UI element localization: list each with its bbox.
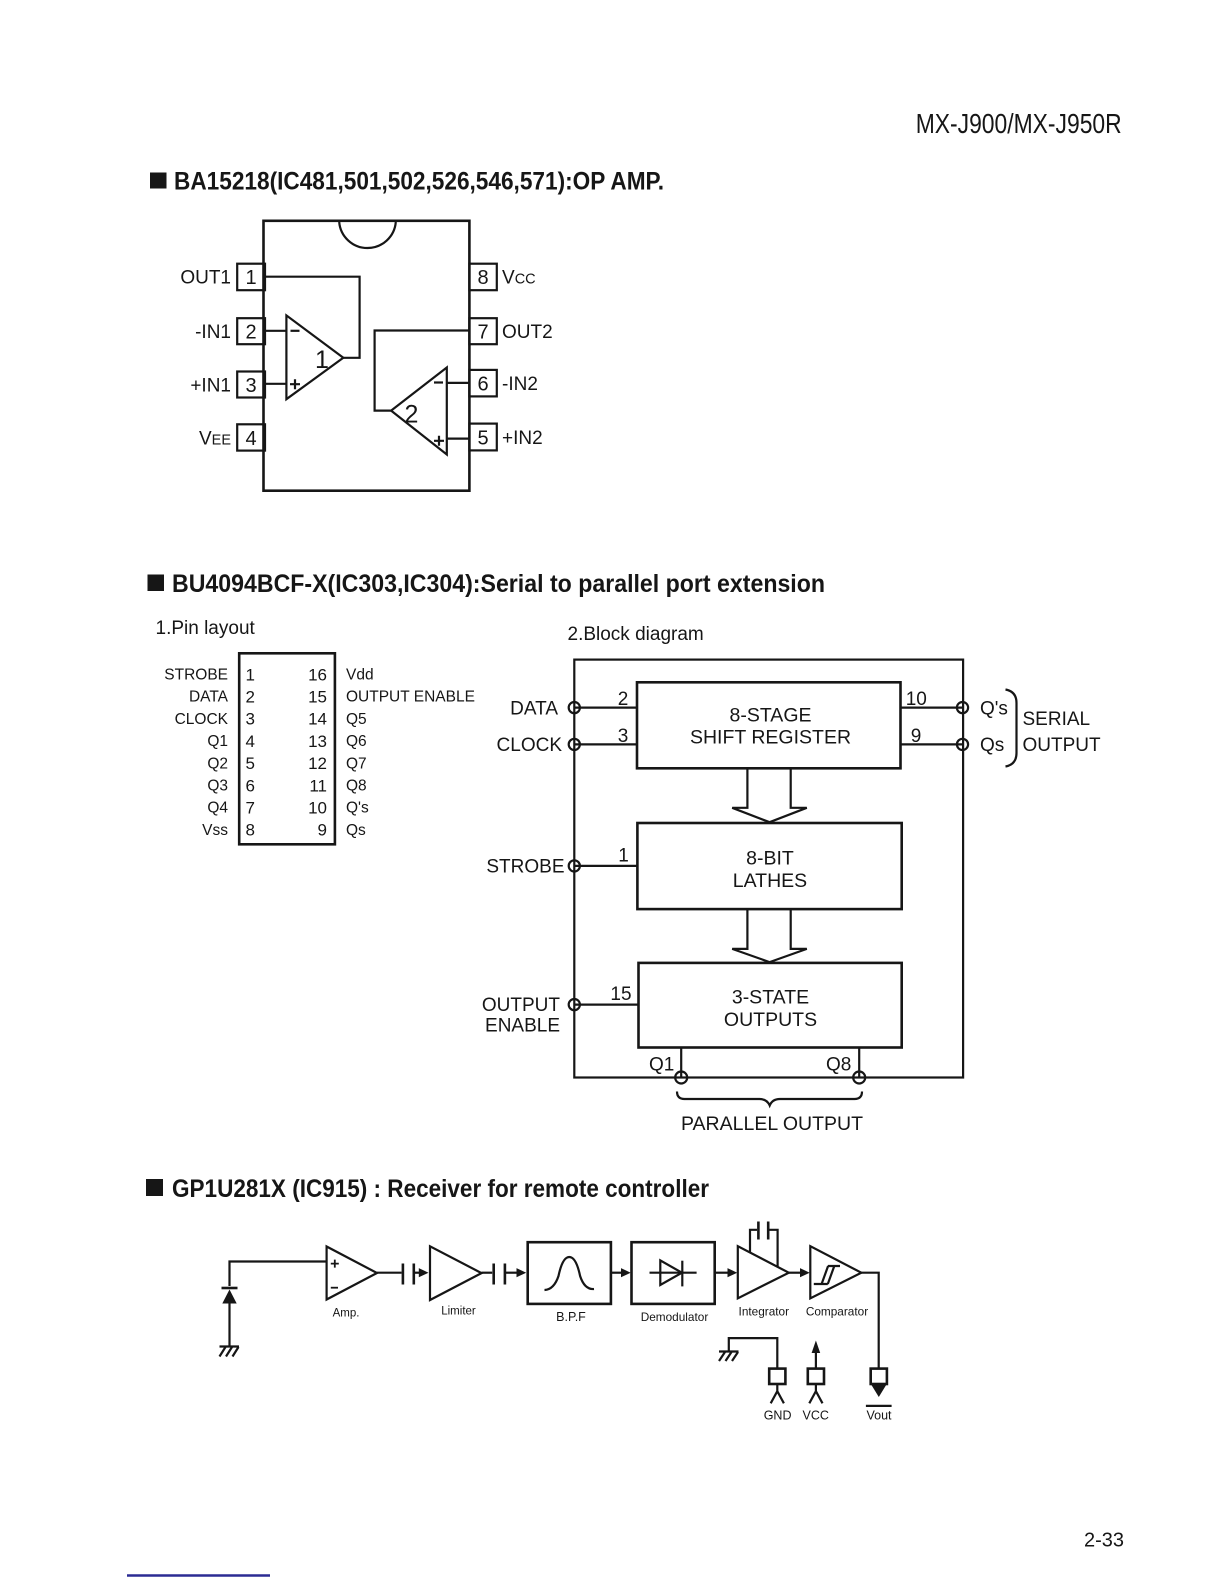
comparator hysteresis glyph [814,1266,840,1284]
band pass filter block [528,1242,611,1304]
svg-text:13: 13 [308,732,327,751]
BPF bell curve [545,1257,595,1290]
svg-text:6: 6 [477,374,488,396]
svg-text:2.Block diagram: 2.Block diagram [568,624,704,645]
op-amp 2 output wire to pin 7 [375,331,470,411]
svg-text:Q4: Q4 [207,800,228,817]
pin 6 box [469,370,496,397]
svg-text:12: 12 [308,754,327,773]
amplifier minus sign [331,1287,338,1289]
svg-text:7: 7 [477,322,488,344]
CLOCK terminal circle [569,739,580,750]
svg-text:DATA: DATA [189,689,229,706]
Q's terminal circle [957,702,968,713]
Q8 output drop wire [858,1048,860,1078]
svg-text:VEE: VEE [199,428,231,449]
svg-text:Q1: Q1 [649,1055,674,1076]
integrator feedback capacitor wire left [750,1230,757,1253]
svg-text:16: 16 [308,665,327,684]
wire Qs pin9 [901,743,963,745]
svg-text:3: 3 [245,375,256,397]
svg-text:11: 11 [309,776,327,795]
integrator U3 triangle [738,1246,789,1298]
svg-text:Q's: Q's [346,800,369,817]
svg-text:Q3: Q3 [207,778,228,795]
ground symbol (input) [220,1347,240,1357]
amplifier U1 triangle [327,1247,377,1300]
svg-text:Q's: Q's [980,698,1008,719]
serial output bracket [1006,690,1017,767]
svg-text:Q1: Q1 [207,733,228,750]
svg-text:Qs: Qs [980,735,1004,756]
package notch [339,222,396,248]
svg-text:Q6: Q6 [346,733,367,750]
Vout arrow down [871,1385,886,1397]
pin layout table body [239,653,335,844]
wire OUTPUT ENABLE pin15 [574,1003,638,1005]
coupling capacitor C1 [403,1264,414,1285]
amplifier plus sign [331,1260,339,1268]
op-amp 1 -in wire from pin 2 [265,330,286,332]
svg-text:CLOCK: CLOCK [175,711,229,728]
svg-text:-IN2: -IN2 [502,374,538,395]
svg-text:Q7: Q7 [346,755,367,772]
svg-text:Comparator: Comparator [806,1305,868,1319]
svg-text:8: 8 [246,821,255,840]
limiter U2 triangle [430,1246,482,1300]
integrator feedback capacitor plates [758,1222,768,1240]
photodiode to ground wire [228,1304,230,1347]
svg-text:Integrator: Integrator [739,1305,790,1319]
op-amp 1 minus sign [291,330,300,332]
svg-text:STROBE: STROBE [164,667,228,684]
pin 3 box [237,372,265,398]
8-stage shift register block [637,682,901,768]
svg-text:8: 8 [477,267,488,289]
svg-text:SHIFT REGISTER: SHIFT REGISTER [690,727,851,749]
op-amp 1 plus sign [290,379,300,389]
svg-text:2: 2 [245,322,256,344]
svg-text:10: 10 [308,799,327,818]
wire STROBE pin1 [574,865,637,867]
op-amp 1 output wire to pin 1 [265,277,360,358]
svg-text:2: 2 [618,689,629,710]
wire Q's pin10 [901,706,963,708]
svg-text:5: 5 [246,754,255,773]
svg-text:1: 1 [246,665,255,684]
svg-text:7: 7 [246,799,255,818]
svg-text:Q8: Q8 [826,1055,851,1076]
pin 5 box [469,424,496,451]
photodiode input wire [230,1262,327,1287]
svg-text:VCC: VCC [502,268,536,289]
wire demodulator to integrator [715,1272,728,1274]
VCC terminal legs [809,1384,822,1403]
svg-text:+IN1: +IN1 [190,375,231,396]
3-state outputs block [639,963,902,1048]
svg-text:OUT1: OUT1 [180,268,231,289]
svg-text:B.P.F: B.P.F [556,1310,586,1324]
svg-text:Qs: Qs [346,822,366,839]
svg-text:GP1U281X (IC915) : Receiver fo: GP1U281X (IC915) : Receiver for remote c… [172,1175,709,1203]
svg-text:15: 15 [308,688,327,707]
GND terminal square [769,1369,785,1384]
svg-text:3-STATE: 3-STATE [732,987,809,1009]
Q8 node circle [853,1072,865,1084]
svg-text:LATHES: LATHES [733,870,807,892]
svg-text:OUTPUTS: OUTPUTS [724,1009,817,1031]
op-amp 2 minus sign [434,381,443,383]
svg-text:1: 1 [618,846,629,867]
op-amp 2 triangle (points left) [391,368,447,455]
svg-text:15: 15 [610,984,631,1005]
svg-text:6: 6 [246,776,255,795]
comparator output wire to Vout [861,1273,878,1369]
limiter output wire [482,1272,493,1274]
svg-text:OUTPUT: OUTPUT [1023,735,1102,756]
ground symbol (GND pin) [719,1352,739,1362]
svg-text:Q5: Q5 [346,711,367,728]
pin 4 box [237,424,265,450]
svg-text:10: 10 [906,689,927,710]
GND terminal legs [771,1384,784,1403]
VCC terminal square [808,1369,824,1384]
wire DATA pin2 [574,706,637,708]
coupling capacitor C2 [494,1264,505,1285]
svg-text:OUT2: OUT2 [502,322,553,343]
svg-text:1: 1 [245,267,256,289]
pin 8 box [469,264,496,291]
GND wire to ground [729,1338,778,1369]
section 3 title marker [146,1179,163,1196]
svg-text:2: 2 [405,401,419,429]
op-amp 2 +in wire from pin 5 [447,438,470,440]
svg-text:5: 5 [477,428,488,450]
svg-text:9: 9 [911,726,922,747]
pin 7 box [469,318,496,344]
fat arrow latches to 3-state [732,909,807,962]
svg-text:MX-J900/MX-J950R: MX-J900/MX-J950R [916,108,1122,139]
svg-text:DATA: DATA [510,698,558,719]
8-bit latches block [637,823,901,909]
svg-text:CLOCK: CLOCK [497,735,563,756]
wire CLOCK pin3 [574,743,637,745]
svg-text:GND: GND [764,1409,792,1423]
svg-text:PARALLEL OUTPUT: PARALLEL OUTPUT [681,1113,863,1135]
svg-text:Amp.: Amp. [333,1308,360,1320]
svg-text:BA15218(IC481,501,502,526,546,: BA15218(IC481,501,502,526,546,571):OP AM… [174,168,664,196]
svg-text:Vout: Vout [866,1409,892,1423]
arrowhead into comparator [800,1268,810,1277]
Q1 node circle [675,1072,687,1084]
comparator U4 triangle [810,1246,861,1298]
demodulator block [632,1242,715,1304]
block diagram outer boundary box [574,660,963,1078]
pin 2 box [237,318,265,344]
STROBE terminal circle [569,860,580,871]
svg-text:9: 9 [318,821,327,840]
svg-text:14: 14 [308,710,327,729]
svg-text:3: 3 [618,726,629,747]
svg-text:OUTPUT ENABLE: OUTPUT ENABLE [346,689,475,706]
Q1 output drop wire [680,1048,682,1078]
DATA terminal circle [569,702,580,713]
svg-text:VCC: VCC [802,1409,828,1423]
svg-text:OUTPUT: OUTPUT [482,995,561,1016]
Vout terminal square [871,1369,887,1384]
svg-text:8-STAGE: 8-STAGE [730,705,812,727]
arrowhead into integrator [728,1268,738,1277]
bottom blue rule [127,1574,270,1577]
svg-text:2-33: 2-33 [1084,1530,1124,1552]
wire BPF to demodulator [611,1272,621,1274]
OUTPUT ENABLE terminal circle [569,999,580,1010]
VCC arrow up [815,1350,817,1369]
svg-text:ENABLE: ENABLE [485,1016,560,1037]
fat arrow shift-register to latches [732,769,807,822]
IC package BA15218 DIP-8 body [264,221,470,491]
arrowhead into demodulator [621,1268,631,1277]
integrator feedback capacitor wire right [768,1230,777,1267]
demodulator diode symbol [650,1272,697,1274]
amp output wire [377,1272,402,1274]
svg-text:1.Pin layout: 1.Pin layout [156,618,256,639]
op-amp 1 +in wire from pin 3 [265,383,286,385]
Vout overline [866,1405,892,1407]
svg-text:Vdd: Vdd [346,667,374,684]
parallel output under-brace [677,1092,862,1106]
pin 1 box [237,264,265,291]
svg-text:4: 4 [245,428,256,450]
svg-text:Q2: Q2 [207,755,228,772]
svg-text:+IN2: +IN2 [502,428,543,449]
arrowhead into BPF [505,1272,517,1274]
svg-text:Limiter: Limiter [441,1306,476,1318]
section 2 title marker [148,575,165,592]
svg-text:4: 4 [246,732,255,751]
svg-text:Q8: Q8 [346,778,367,795]
svg-text:8-BIT: 8-BIT [746,848,794,870]
svg-text:Demodulator: Demodulator [641,1310,709,1324]
svg-text:BU4094BCF-X(IC303,IC304):Seria: BU4094BCF-X(IC303,IC304):Serial to paral… [172,570,825,598]
Qs terminal circle [957,739,968,750]
svg-text:Vss: Vss [202,822,228,839]
svg-text:SERIAL: SERIAL [1023,709,1091,730]
op-amp 1 triangle [286,315,343,399]
svg-text:-IN1: -IN1 [195,322,231,343]
section 1 title marker [150,173,167,189]
op-amp 2 plus sign [434,436,444,446]
svg-text:STROBE: STROBE [486,857,564,878]
arrowhead into limiter [414,1272,420,1274]
photodiode D1 body [222,1290,236,1304]
svg-text:2: 2 [246,688,255,707]
svg-text:1: 1 [315,346,329,374]
op-amp 2 -in wire from pin 6 [447,382,470,384]
wire integrator to comparator [789,1272,800,1274]
photodiode D1 cathode bar [222,1287,238,1290]
svg-text:3: 3 [246,710,255,729]
